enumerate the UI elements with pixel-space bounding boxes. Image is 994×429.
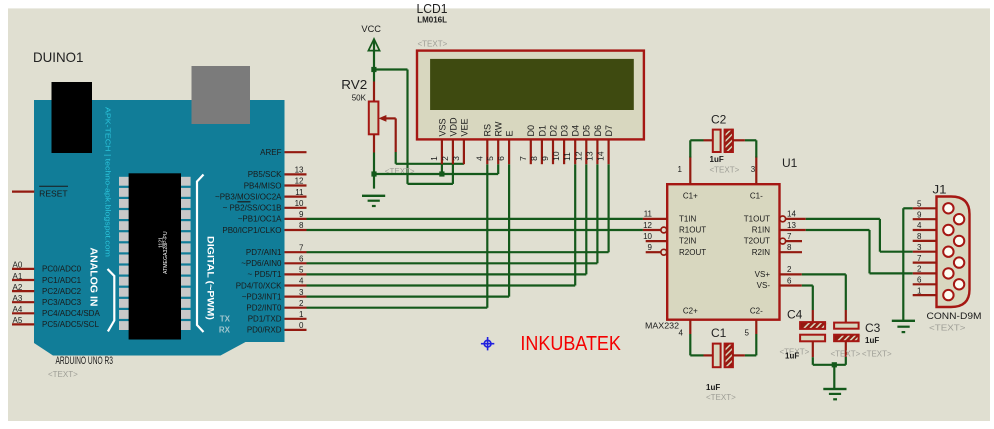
svg-text:9: 9 (917, 210, 922, 219)
LCD pin 14 D7 (596, 125, 614, 164)
svg-text:U1: U1 (782, 156, 798, 170)
svg-text:5: 5 (299, 266, 304, 275)
svg-text:2: 2 (440, 156, 450, 161)
LCD pin 5 RW (485, 121, 503, 164)
svg-text:RESET: RESET (39, 188, 67, 198)
svg-text:A4: A4 (13, 305, 23, 314)
svg-text:PC2/ADC2: PC2/ADC2 (42, 287, 82, 296)
U1 pin 10 T2IN stub (643, 232, 667, 241)
node VCC junction (371, 67, 376, 72)
wire arduino pin 9 to MAX232 T1IN (307, 218, 643, 220)
LCD pin 11 D4 (562, 125, 580, 164)
LCD pin 12 D5 (573, 125, 591, 164)
svg-text:D3: D3 (560, 125, 570, 137)
svg-text:5: 5 (917, 200, 922, 209)
svg-text:T2OUT: T2OUT (744, 237, 770, 246)
wire C4 C3 to ground (813, 357, 846, 389)
U1 pin 5 C2- stub (745, 320, 757, 338)
svg-text:6: 6 (917, 276, 922, 285)
svg-text:1: 1 (299, 310, 304, 319)
svg-text:4: 4 (917, 221, 922, 230)
pin A4 PC4/ADC4/SDA (12, 305, 100, 318)
svg-text:C2: C2 (711, 113, 727, 127)
pin RESET (12, 186, 68, 198)
arduino right pin 0 PD0/RXD (247, 321, 307, 335)
svg-text:ARDUINO UNO R3: ARDUINO UNO R3 (56, 355, 114, 367)
ground symbol at J1 (892, 320, 915, 334)
overline SS / MOSI marker (237, 201, 250, 203)
U1 pin 4 C2+ stub (679, 320, 691, 338)
svg-text:PB4/MISO: PB4/MISO (244, 181, 282, 190)
svg-text:R1OUT: R1OUT (679, 226, 706, 235)
J1 pin 8 (913, 232, 965, 246)
svg-text:~PB3/MOSI/OC2A: ~PB3/MOSI/OC2A (215, 192, 282, 201)
analog group bracket (108, 269, 115, 331)
wire arduino pin 5 to LCD D5 (307, 164, 587, 274)
arduino right pin AREF AREF (260, 148, 306, 157)
svg-text:MAX232: MAX232 (645, 322, 680, 331)
U1 pin 12 R1OUT stub with bubble (643, 221, 667, 233)
svg-text:6: 6 (787, 276, 792, 285)
U1 pin 2 VS+ stub (780, 265, 802, 274)
wire arduino pin 6 to LCD D6 (307, 164, 598, 263)
wire VCC to LCD VDD (down via x407) (374, 70, 453, 184)
svg-text:12: 12 (295, 177, 304, 186)
svg-text:6: 6 (299, 255, 304, 264)
capacitor C3 (834, 323, 860, 357)
svg-text:RV2: RV2 (341, 77, 367, 92)
svg-text:~PD6/AIN0: ~PD6/AIN0 (241, 259, 282, 268)
svg-text:13: 13 (787, 221, 796, 230)
svg-text:~PB1/OC1A: ~PB1/OC1A (238, 215, 282, 224)
wire arduino pin 7 to LCD D7 (307, 164, 609, 252)
svg-text:D6: D6 (593, 125, 603, 137)
U1 pin 3 C1- stub (751, 157, 757, 185)
svg-text:A0: A0 (13, 261, 23, 270)
U1 pin 8 R2IN stub (780, 243, 803, 252)
arduino right pin 7 PD7/AIN1 (246, 243, 307, 257)
U1 pin 1 C1+ stub (678, 157, 691, 185)
svg-text:7: 7 (518, 156, 528, 161)
svg-text:~ PD5/T1: ~ PD5/T1 (247, 270, 282, 279)
node ground junction at RV2 (371, 171, 376, 176)
wire MAX232 T1OUT to J1 pin 3 (806, 219, 913, 252)
svg-text:1: 1 (429, 156, 439, 161)
node C4 C3 ground junction (832, 362, 837, 367)
svg-text:RW: RW (494, 121, 504, 136)
svg-text:E: E (505, 130, 515, 136)
LCD pin 7 D0 (518, 125, 536, 164)
arduino right pin 10 ~ PB2/SS/OC1B (223, 199, 307, 213)
ground symbol below C4 C3 (823, 388, 846, 401)
wire ground rail to LCD VSS and RW (374, 164, 498, 174)
svg-text:D2: D2 (548, 125, 558, 137)
svg-text:C4: C4 (787, 308, 803, 322)
svg-text:1uF: 1uF (865, 336, 879, 345)
svg-text:3: 3 (751, 165, 756, 174)
J1 pin 9 (913, 210, 965, 224)
svg-text:<TEXT>: <TEXT> (706, 393, 736, 402)
svg-text:CONN-D9M: CONN-D9M (927, 311, 982, 321)
svg-text:3: 3 (299, 288, 304, 297)
svg-text:PB5/SCK: PB5/SCK (248, 170, 282, 179)
svg-text:C1+: C1+ (683, 192, 698, 201)
svg-text:14: 14 (596, 151, 606, 161)
pin A0 PC0/ADC0 (12, 261, 82, 274)
svg-text:4: 4 (474, 156, 484, 161)
svg-text:RX: RX (219, 326, 231, 335)
connector J1 shell (937, 197, 970, 308)
arduino right pin 3 ~PD3/INT1 (242, 288, 307, 302)
potentiometer RV2 (341, 77, 395, 153)
svg-text:J1: J1 (933, 183, 947, 197)
power symbol VCC (361, 24, 381, 81)
J1 pin 7 (913, 254, 965, 268)
svg-text:12: 12 (573, 151, 583, 161)
arduino right pin 2 PD2/INT0 (246, 299, 306, 313)
J1 pin 1 (913, 286, 954, 300)
svg-text:VS+: VS+ (755, 270, 771, 279)
svg-text:9: 9 (299, 210, 304, 219)
svg-text:13: 13 (584, 151, 594, 161)
svg-text:0: 0 (299, 321, 304, 330)
op-amp U1 MAX232 body (667, 184, 779, 320)
wire VS- to C4 (802, 286, 813, 323)
svg-text:R2OUT: R2OUT (679, 248, 706, 257)
svg-text:5: 5 (485, 156, 495, 161)
origin marker (481, 337, 494, 350)
U1 pin 11 T1IN stub (643, 210, 667, 219)
svg-text:C2-: C2- (750, 307, 763, 316)
svg-text:PC4/ADC4/SDA: PC4/ADC4/SDA (42, 309, 100, 318)
arduino right pin 9 ~PB1/OC1A (238, 210, 307, 224)
svg-text:T1IN: T1IN (679, 215, 697, 224)
LCD pin 13 D6 (584, 125, 602, 164)
svg-text:PC3/ADC3: PC3/ADC3 (42, 298, 82, 307)
svg-text:~ PB2/SS/OC1B: ~ PB2/SS/OC1B (223, 204, 282, 213)
svg-text:7: 7 (917, 254, 922, 263)
LCD pin 8 D1 (529, 125, 547, 164)
svg-text:D4: D4 (571, 125, 581, 137)
svg-text:4: 4 (299, 277, 304, 286)
svg-text:1uF: 1uF (785, 352, 799, 361)
svg-text:1121: 1121 (159, 237, 165, 248)
wire RV2 wiper to LCD VEE (396, 152, 464, 164)
svg-text:7: 7 (299, 243, 304, 252)
arduino right pin 13 PB5/SCK (248, 166, 307, 180)
LCD pin 6 E (496, 130, 514, 164)
LCD LCD1 body (417, 51, 644, 140)
node VSS junction (439, 171, 444, 176)
svg-text:11: 11 (295, 188, 304, 197)
pin A3 PC3/ADC3 (12, 294, 82, 307)
arduino right pin 11 ~PB3/MOSI/OC2A (215, 188, 306, 202)
svg-text:T2IN: T2IN (679, 237, 697, 246)
svg-text:13: 13 (295, 166, 304, 175)
LCD pin 10 D3 (551, 125, 569, 164)
LCD pin 3 VEE (451, 118, 469, 164)
svg-text:R1IN: R1IN (752, 226, 770, 235)
arduino right pin 12 PB4/MISO (244, 177, 307, 191)
J1 pin 6 (913, 276, 965, 290)
svg-text:PC5/ADC5/SCL: PC5/ADC5/SCL (42, 320, 99, 329)
arduino right pin 6 ~PD6/AIN0 (241, 255, 306, 269)
svg-text:~PD3/INT1: ~PD3/INT1 (242, 292, 282, 301)
svg-text:VS-: VS- (757, 281, 771, 290)
arduino right pin 1 PD1/TXD (248, 310, 307, 324)
svg-text:1: 1 (917, 286, 922, 295)
J1 pin 4 (913, 221, 954, 235)
J1 pin 3 (913, 243, 954, 257)
svg-text:APK-TECH | techno-apk.blogspot: APK-TECH | techno-apk.blogspot.com (104, 107, 113, 257)
svg-text:14: 14 (787, 210, 796, 219)
svg-text:PD2/INT0: PD2/INT0 (246, 304, 282, 313)
svg-text:10: 10 (551, 151, 561, 161)
svg-text:C2+: C2+ (683, 307, 698, 316)
svg-text:T1OUT: T1OUT (744, 215, 770, 224)
svg-text:A1: A1 (13, 272, 23, 281)
U1 pin 14 T1OUT stub with bubble (780, 210, 806, 222)
svg-text:PD4/T0/XCK: PD4/T0/XCK (236, 281, 282, 290)
U1 pin 9 R2OUT stub with bubble (646, 243, 667, 255)
svg-text:PD0/RXD: PD0/RXD (247, 326, 282, 335)
svg-text:VCC: VCC (361, 24, 381, 34)
svg-text:11: 11 (644, 210, 653, 219)
J1 pin 5 (913, 200, 954, 214)
svg-text:2: 2 (787, 265, 792, 274)
svg-text:PD7/AIN1: PD7/AIN1 (246, 248, 282, 257)
svg-text:7: 7 (787, 232, 792, 241)
svg-text:PC0/ADC0: PC0/ADC0 (42, 265, 82, 274)
svg-text:3: 3 (917, 243, 922, 252)
svg-text:10: 10 (295, 199, 304, 208)
wire MAX232 R1IN to J1 pin 2 (806, 230, 913, 273)
svg-text:12: 12 (643, 221, 652, 230)
svg-text:D7: D7 (604, 125, 614, 137)
LCD pin 2 VDD (440, 117, 458, 164)
svg-text:5: 5 (745, 329, 750, 338)
arduino power jack (52, 82, 93, 153)
U1 pin 6 VS- stub (780, 276, 802, 285)
svg-text:2: 2 (917, 265, 922, 274)
svg-text:6: 6 (496, 156, 506, 161)
svg-text:50K: 50K (352, 93, 367, 102)
J1 pin 2 (913, 265, 954, 279)
wire arduino pin 2 to LCD RS (307, 164, 488, 308)
svg-text:<TEXT>: <TEXT> (862, 350, 892, 359)
svg-text:8: 8 (299, 221, 304, 230)
svg-text:VSS: VSS (437, 118, 447, 136)
svg-text:A3: A3 (13, 294, 23, 303)
wire arduino pin 8 to MAX232 R1OUT (307, 229, 643, 231)
svg-text:INKUBATEK: INKUBATEK (520, 333, 621, 355)
svg-text:<TEXT>: <TEXT> (418, 40, 448, 49)
svg-text:AREF: AREF (260, 148, 281, 157)
svg-text:9: 9 (648, 243, 653, 252)
svg-text:PB0/ICP1/CLKO: PB0/ICP1/CLKO (222, 226, 281, 235)
svg-text:LCD1: LCD1 (417, 1, 448, 16)
digital group bracket (197, 175, 204, 333)
svg-text:8: 8 (529, 156, 539, 161)
pin A2 PC2/ADC2 (12, 283, 82, 296)
arduino right pin 8 PB0/ICP1/CLKO (222, 221, 306, 235)
svg-text:R2IN: R2IN (752, 248, 770, 257)
wire arduino pin 4 to LCD D4 (307, 164, 576, 285)
arduino right pin 5 ~ PD5/T1 (247, 266, 306, 280)
svg-text:<TEXT>: <TEXT> (710, 166, 740, 175)
svg-text:DIGITAL (~PWM): DIGITAL (~PWM) (206, 236, 216, 320)
svg-text:2: 2 (299, 299, 304, 308)
capacitor C2 (690, 128, 756, 158)
svg-text:8: 8 (917, 232, 922, 241)
svg-text:PD1/TXD: PD1/TXD (248, 315, 282, 324)
LCD pin 4 RS (474, 124, 492, 164)
svg-text:4: 4 (679, 329, 684, 338)
arduino DIP chip ATMEGA328P (119, 173, 191, 339)
svg-text:DUINO1: DUINO1 (33, 49, 84, 65)
LCD pin 9 D2 (540, 125, 558, 164)
capacitor C1 (690, 334, 756, 368)
arduino right pin 4 PD4/T0/XCK (236, 277, 307, 291)
svg-text:C1-: C1- (750, 192, 763, 201)
ground symbol at RV2 (362, 195, 385, 207)
pin A5 PC5/ADC5/SCL (12, 316, 99, 329)
wire VS+ to C3 (802, 274, 846, 322)
svg-text:1uF: 1uF (706, 383, 720, 392)
svg-text:A2: A2 (13, 283, 23, 292)
U1 pin 7 T2OUT stub with bubble (780, 232, 802, 244)
svg-text:D5: D5 (582, 125, 592, 137)
svg-text:PC1/ADC1: PC1/ADC1 (42, 276, 82, 285)
U1 pin 13 R1IN stub (780, 221, 806, 230)
capacitor C4 (800, 322, 827, 357)
svg-text:C3: C3 (865, 321, 881, 335)
wire RV2 bottom to ground rail (373, 153, 375, 189)
svg-text:ANALOG IN: ANALOG IN (88, 248, 99, 307)
svg-text:TX: TX (220, 315, 231, 324)
svg-text:1uF: 1uF (710, 155, 724, 164)
svg-text:<TEXT>: <TEXT> (929, 324, 966, 333)
svg-text:D1: D1 (537, 125, 547, 137)
svg-text:VDD: VDD (448, 117, 458, 137)
svg-text:RS: RS (483, 124, 493, 137)
svg-text:10: 10 (643, 232, 652, 241)
pin A1 PC1/ADC1 (12, 272, 82, 285)
svg-text:C1: C1 (711, 326, 727, 340)
wire arduino pin 3 to LCD E (307, 164, 510, 296)
wire J1 pin 5 to ground (903, 208, 912, 320)
svg-text:LM016L: LM016L (417, 15, 447, 24)
LCD pin 1 VSS (429, 118, 447, 164)
svg-text:9: 9 (540, 156, 550, 161)
arduino usb connector (192, 66, 251, 124)
svg-text:D0: D0 (526, 125, 536, 137)
svg-text:8: 8 (787, 243, 792, 252)
svg-text:11: 11 (562, 152, 572, 161)
svg-text:VEE: VEE (459, 118, 469, 136)
svg-text:<TEXT>: <TEXT> (48, 370, 78, 379)
svg-text:1: 1 (678, 165, 683, 174)
svg-text:3: 3 (451, 156, 461, 161)
svg-text:A5: A5 (13, 316, 23, 325)
U1 pin-name labels (679, 192, 770, 316)
arduino board DUINO1 body (34, 100, 285, 356)
